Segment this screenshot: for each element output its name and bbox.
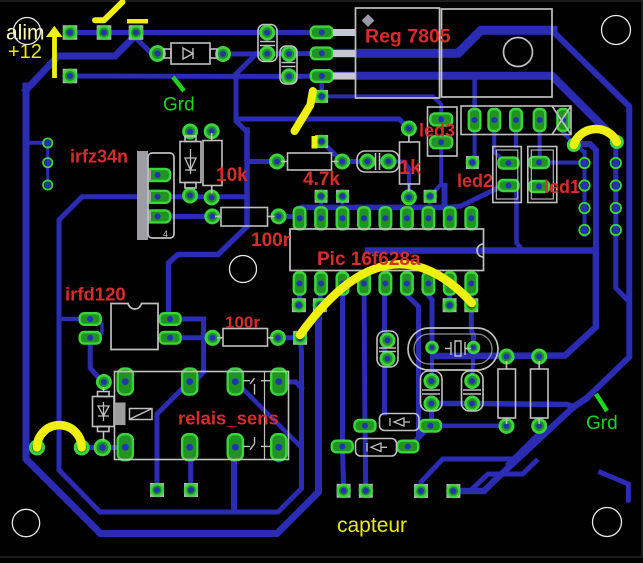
wire sensor pad5 to border: [421, 459, 517, 491]
label Grd pointer: [173, 77, 184, 91]
pad jumper J4 left: [568, 139, 579, 150]
pad +12 input 1: [63, 25, 78, 40]
pad reg 7805 pin3: [311, 70, 333, 82]
pad cap C2 bottom: [282, 70, 295, 83]
pad below PIC 8: [443, 298, 457, 312]
pad relay diode top: [97, 375, 110, 388]
pad irfz34n gate: [145, 191, 170, 203]
relay K1 zener stubs: [103, 387, 105, 441]
wire PIC pin3 bottom to diode D5 and sensor pad: [343, 284, 344, 491]
pad +12 input 2: [97, 25, 112, 40]
wire reg pin2 through body to top: [322, 30, 553, 53]
pad relais pin top 4: [271, 369, 286, 395]
pad cap C6 bottom: [466, 397, 479, 410]
pad cap C6 top: [466, 374, 479, 387]
diode D4 outline: [380, 414, 420, 431]
wire led pad row vertical 1: [472, 120, 474, 160]
pad cap C3 left: [361, 155, 374, 168]
wire led pad row vertical 2: [494, 120, 508, 163]
wire sensor pad6 corner jog: [453, 461, 536, 491]
wire irfd feeder branch: [59, 317, 90, 322]
pad supply row: [63, 69, 78, 84]
zener D2 outline: [180, 136, 201, 188]
image frame edges: [0, 0, 643, 2]
pad irfd120 pin1: [80, 313, 101, 325]
pad resistor R6 bottom: [500, 419, 513, 432]
pad PIC pin bottom 3: [337, 273, 349, 295]
wire irfd right lower to 100r second: [170, 335, 213, 340]
pad +12 input 3: [129, 25, 144, 40]
wire 4.7k to cap C3: [342, 159, 367, 164]
pad PIC pin bottom 6: [401, 273, 413, 295]
pad led3 anode: [430, 113, 452, 125]
resistor R7 outline: [531, 361, 549, 424]
wire pad row +12 horizontal: [70, 30, 136, 35]
pad resistor 100r right: [272, 210, 285, 223]
diode D5 outline: [356, 439, 397, 457]
via small column 3: [43, 180, 52, 189]
svg-text:4.7k: 4.7k: [303, 169, 340, 190]
wire irfd right pad to relay pad2 top: [170, 319, 204, 381]
svg-text:Reg 7805: Reg 7805: [365, 26, 451, 48]
pad PIC pin top 2: [315, 207, 327, 229]
pad cap C1 top: [261, 26, 274, 39]
via column B3: [611, 203, 621, 213]
wire small via column vertical: [46, 143, 49, 185]
pad resistor R7 bottom: [533, 419, 546, 432]
pad PIC pin top 7: [423, 207, 435, 229]
wire via column left vertical: [583, 152, 587, 235]
pad relais pin top 2: [182, 369, 197, 395]
svg-text:relais_sens: relais_sens: [178, 408, 279, 429]
pad sensor 2: [184, 483, 198, 497]
label Grd bottom pointer: [596, 394, 607, 411]
wire irfd pad lower-left down to relay diode: [90, 337, 104, 382]
pad relais pin bottom 3: [228, 434, 243, 460]
svg-text:irfd120: irfd120: [65, 284, 126, 305]
pad header pin2: [489, 109, 501, 131]
wire relay pad4 bottom right vertical: [276, 447, 281, 460]
pad node left of led2: [466, 156, 479, 169]
pad PIC pin bottom 4: [358, 273, 370, 295]
wire PIC pin7 bottom to crystal: [428, 284, 432, 348]
wire crystal right to cap C6: [472, 348, 473, 382]
transistor Q1 irfz34n outline: [137, 151, 174, 240]
wire 4.7k left pad branch: [247, 159, 277, 164]
wire led1 top to via column: [547, 161, 585, 166]
pad resistor 10k bottom: [205, 191, 218, 204]
pad crystal right: [468, 342, 479, 353]
crystal Q3 outline: [408, 328, 498, 370]
pad 100r-2 left: [206, 331, 219, 344]
mounting hole bottom-left: [12, 509, 39, 536]
svg-text:100r: 100r: [251, 230, 291, 251]
wire via column right vertical: [614, 152, 618, 240]
wire pad row supply y76: [70, 74, 289, 79]
wire irfz pad2 net to relay: [59, 197, 302, 512]
pad cap C3 right: [382, 155, 395, 168]
wire reg tab pad stub to pad row: [472, 78, 477, 120]
via column B2: [611, 180, 621, 190]
pad cap C4 top: [381, 334, 394, 347]
pad PIC pin top 3: [337, 207, 349, 229]
pad resistor 1k bottom: [402, 191, 415, 204]
pad diode D4 right: [420, 420, 441, 432]
diode D1 outline: [164, 43, 217, 64]
pad relais pin top 3: [228, 369, 243, 395]
wire 100r right to PIC pin1: [279, 214, 296, 219]
pad irfd120 pin2: [80, 332, 101, 344]
wire top-left border horizontal to pad row: [26, 35, 136, 90]
resistor R2 100r outline: [215, 208, 275, 227]
pad jumper J5 right: [75, 441, 88, 454]
pad cap C1 bottom: [261, 47, 274, 60]
pad header pin5: [557, 109, 569, 131]
relay K1 contact marks top: [243, 378, 270, 395]
relay K1 outline: [115, 372, 289, 460]
pad cap C2 top: [282, 47, 295, 60]
capacitor C4 outline: [377, 331, 398, 367]
regulator U2 pin1 diamond: [362, 14, 375, 27]
relay K1 coil block: [115, 403, 126, 426]
regulator U2 Reg 7805 body: [356, 8, 553, 98]
wire irfd left pads link: [96, 319, 102, 338]
mounting hole bottom-right: [593, 508, 622, 537]
pad crystal left: [427, 342, 438, 353]
wire PIC right thick ground: [368, 247, 596, 254]
wire PIC pin2 top: [319, 196, 323, 218]
via column A2: [579, 180, 589, 190]
pad led1 cathode: [529, 181, 549, 192]
wire relay pad4 diagonal: [282, 382, 302, 388]
header connector outline: [461, 106, 571, 135]
wire led pad row vertical 3: [514, 120, 518, 146]
wire arc pad to relay pad1: [82, 445, 126, 450]
pad node relay feed: [95, 440, 110, 455]
pad PIC pin bottom 1: [294, 273, 306, 295]
relay K1 zener outline: [93, 392, 115, 432]
svg-text:led2: led2: [457, 171, 493, 191]
wire crystal left to cap C5: [429, 348, 434, 382]
pad resistor 4.7k right: [336, 155, 349, 168]
wire arc pad right to via column: [616, 142, 617, 163]
resistor R4 1k outline: [400, 135, 420, 191]
pad diode D1 cathode: [216, 47, 229, 60]
pad diode D4 left: [355, 420, 376, 432]
pad sensor 5: [414, 484, 428, 498]
wire right border lower diagonal: [453, 399, 586, 491]
via column A3: [579, 203, 589, 213]
wire PIC pin6 bottom to diode D5 right: [407, 284, 419, 447]
wire irfz pads row2: [157, 194, 247, 199]
wire jumper J3 pad to 4.7k: [322, 142, 343, 162]
pad PIC pin top 8: [444, 207, 456, 229]
jumper J6 big arc: [300, 264, 472, 335]
pad via below reg pin3: [315, 90, 328, 103]
pad resistor 100r left: [206, 210, 219, 223]
capacitor C2 outline: [280, 46, 297, 84]
pad PIC pin top 4: [358, 207, 370, 229]
pad zener D2 bottom: [184, 189, 197, 202]
wire diode D1 cathode down: [236, 54, 256, 132]
pad led2 anode: [499, 158, 519, 169]
pad sensor 3: [337, 484, 351, 498]
pad relais pin bottom 2: [182, 434, 197, 460]
capacitor C6 outline: [462, 371, 484, 411]
pad cap C5 top: [425, 374, 438, 387]
mounting hole top-right: [602, 16, 631, 45]
svg-text:4: 4: [163, 229, 168, 239]
via column A4: [579, 225, 589, 235]
pad PIC pin bottom 8: [444, 273, 456, 295]
wire relay pad3 long diagonal: [238, 384, 301, 447]
wire relay pad3 bottom to band: [231, 447, 237, 510]
pad PIC pin bottom 5: [380, 273, 392, 295]
wire PIC pin6 top to 1k: [407, 197, 409, 218]
wire cap C5 C6 bottom to Grd border: [431, 404, 573, 407]
pad resistor 1k top: [402, 122, 415, 135]
capacitor C1 outline: [258, 25, 277, 62]
relay K1 contact marks bottom: [243, 437, 270, 450]
wire reg pin3 down to via pad: [319, 76, 324, 96]
pad PIC pin bottom 9: [466, 273, 478, 295]
wire bottom right corner jog: [601, 472, 629, 500]
via column B4: [611, 225, 621, 235]
pad resistor 4.7k left: [270, 155, 283, 168]
pad irfd120 pin3: [160, 313, 181, 325]
via column A1: [579, 158, 589, 168]
svg-text:Grd: Grd: [163, 95, 195, 116]
resistor R3 4.7k outline: [281, 153, 339, 170]
pad PIC pin top 5: [380, 207, 392, 229]
pad reg 7805 pin1: [311, 27, 333, 39]
wire led2 bottom to ground bus: [508, 184, 523, 250]
pad jumper J2 end: [315, 135, 328, 148]
pad below PIC 1: [292, 298, 306, 312]
pad relais pin bottom 1: [118, 434, 133, 460]
pad led1 anode: [529, 157, 549, 168]
wire led pad row vertical 4: [538, 120, 542, 158]
pad irfz34n source: [145, 210, 170, 222]
wire PIC pin4 bottom to diode D4 and sensor pad: [364, 284, 366, 491]
wire cap C3 to 1k: [388, 162, 409, 191]
mounting hole top-left: [14, 18, 41, 45]
wire irfz pads row3 to 100r: [157, 214, 213, 219]
wire relay pad2 bottom down: [188, 447, 193, 490]
led2 outline: [493, 147, 522, 203]
pad diode D5 right: [397, 441, 418, 453]
pad 100r-2 right: [271, 331, 284, 344]
pad bus node 1: [315, 190, 328, 203]
pad resistor R6 top: [500, 350, 513, 363]
wire horizontal y119: [236, 119, 409, 129]
wire PIC pin9 bottom to crystal right: [471, 284, 473, 348]
via small column 1: [43, 138, 52, 147]
via column B1: [611, 158, 621, 168]
relay K1 contact symbol: [130, 409, 153, 420]
wire reg pin3 ground through body to right side: [322, 76, 616, 140]
led3 outline: [428, 107, 458, 156]
via small column 2: [43, 158, 52, 167]
resistor R5 100r-2 outline: [217, 329, 274, 347]
pad irfd120 pin4: [160, 332, 181, 344]
wire cap C2 to reg pin3: [289, 74, 322, 79]
wire relay pad2 top to bottom pad: [157, 381, 190, 490]
svg-text:100r: 100r: [225, 313, 260, 332]
wire border stub to arc pad left: [26, 445, 37, 450]
resistor R6 outline: [498, 361, 516, 424]
pad sensor 4: [359, 484, 373, 498]
jumper J1 wire top: [95, 2, 123, 20]
op-amp U1 Pic 16f628a outline: [290, 229, 484, 271]
pad PIC pin bottom 7: [423, 273, 435, 295]
svg-text:led3: led3: [419, 121, 455, 141]
jumper J2 wire: [295, 91, 313, 131]
pad resistor R7 top: [533, 350, 546, 363]
pad arc left end: [293, 331, 307, 345]
pad resistor 10k top: [205, 125, 218, 138]
wire PIC pin1 bottom to pad: [297, 284, 302, 306]
wire PIC pin2 bottom to border pad: [320, 284, 321, 306]
pad cap C5 bottom: [425, 397, 438, 410]
transistor Q2 irfd120 outline: [111, 304, 158, 350]
pad sensor 6: [446, 484, 460, 498]
mounting hole center: [230, 256, 257, 283]
pad relais pin top 1: [118, 369, 133, 395]
wire PIC pin5 bottom down: [382, 284, 387, 414]
jumper J1 bar: [127, 19, 148, 24]
wire via column left top to arc pad: [574, 144, 585, 153]
wire ground bus y54: [223, 51, 322, 57]
pad bus node 3: [424, 190, 437, 203]
pad PIC pin top 1: [294, 207, 306, 229]
wire right border: [552, 30, 629, 398]
svg-text:led1: led1: [544, 177, 580, 197]
pad PIC pin top 6: [401, 207, 413, 229]
pad led2 cathode: [499, 180, 519, 191]
pad below PIC 9 arc end: [464, 298, 478, 312]
pad header pin1: [469, 109, 481, 131]
wire bus diagonal right: [450, 184, 508, 207]
svg-text:irfz34n: irfz34n: [70, 147, 128, 167]
led1 outline: [528, 147, 557, 203]
svg-text:1k: 1k: [399, 157, 422, 179]
pad jumper J5 left: [30, 441, 43, 454]
relay K1 inner divider: [264, 372, 266, 460]
wire pad3 to diode D1 anode: [136, 34, 158, 54]
wire diode D5 right to cap C5: [408, 404, 432, 447]
alim arrow: [46, 26, 63, 78]
pad cap C4 bottom: [381, 352, 394, 365]
wire pad3 to cap C1 and reg input pin: [136, 30, 322, 35]
jumper J5 arc left: [37, 425, 82, 447]
pad irfz34n drain: [145, 169, 170, 181]
wire led3 bottom link: [430, 142, 441, 196]
wire ground to resistor pads: [437, 250, 596, 356]
resistor R1 10k outline: [203, 133, 222, 194]
wire PIC pin3 top: [341, 196, 345, 218]
pad relais pin bottom 4: [271, 434, 286, 460]
svg-text:10k: 10k: [216, 165, 248, 186]
svg-text:Pic 16f628a: Pic 16f628a: [317, 249, 421, 270]
jumper J3 bar: [312, 136, 318, 149]
wire via column right outer: [616, 140, 628, 301]
capacitor C5 outline: [421, 371, 443, 411]
pad led3 cathode: [430, 136, 452, 148]
jumper J4 arc right: [574, 129, 617, 145]
pad below PIC 2 node B: [313, 298, 327, 312]
wire PIC top bus: [297, 207, 452, 216]
svg-text:Grd: Grd: [586, 413, 618, 434]
capacitor C3 outline: [357, 151, 399, 172]
pad bus node 2: [336, 190, 349, 203]
pad header pin3: [510, 109, 522, 131]
wire pin5 stub to cap C4: [385, 338, 388, 342]
pad reg 7805 pin2: [311, 48, 333, 60]
wire PIC pin7 top: [428, 196, 430, 218]
wire main vertical x247 to irfd: [169, 130, 248, 319]
regulator U2 leads: [333, 29, 356, 80]
pad zener D2 top: [184, 125, 197, 138]
pad diode D1 anode: [151, 47, 165, 61]
pad sensor 1: [150, 483, 164, 497]
wire resistor R6 top pads link: [507, 354, 540, 359]
wire left border vertical and bottom band to node B: [26, 86, 319, 534]
wire arc pad left down to ground: [574, 144, 596, 250]
wire PIC pin8 bottom to pad: [447, 284, 452, 306]
wire via pad to led3 anode: [322, 96, 442, 119]
wire small via column feed: [26, 141, 48, 145]
svg-text:capteur: capteur: [337, 514, 407, 537]
wire 100r second to arc pad: [278, 335, 300, 340]
pad PIC pin top 9: [466, 207, 478, 229]
wire led3 net to bus: [442, 186, 448, 207]
pad diode D5 left: [332, 441, 353, 453]
wire resistor R7 bottom diagonal: [508, 426, 539, 464]
pad header pin4: [534, 109, 546, 131]
wire diode D4 right to resistor R6 bottom: [430, 423, 507, 428]
pad jumper J4 right: [611, 136, 622, 147]
pad PIC pin bottom 2: [315, 273, 327, 295]
wire oval pin5 to arc pad: [563, 128, 574, 143]
